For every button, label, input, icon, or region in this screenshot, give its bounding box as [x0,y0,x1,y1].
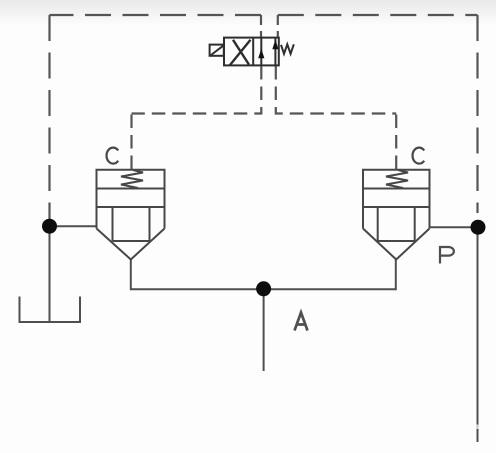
tank symbol [20,297,81,323]
arrowhead flow 1 [258,49,264,58]
node T [42,219,57,234]
solenoid valve U1 [210,38,294,66]
cartridge valve right [363,170,430,260]
X closed position [230,40,251,65]
arrowhead flow 2 [272,40,278,49]
pilot line valve to left cartridge [132,66,262,169]
wire node A down [263,289,265,371]
flow paths [261,38,275,66]
pilot stub valve top port 2 [277,15,279,38]
wire right cartridge to node P [430,226,478,228]
wire bottom rail tips to node A [131,260,396,290]
wire node T down to tank [49,226,51,322]
label C left [107,148,119,164]
spring right cartridge [386,170,408,188]
funnel left [97,229,165,260]
label A [295,313,308,331]
wire node P down [477,227,479,442]
node A [256,281,271,296]
pilot line valve to right cartridge [276,66,396,169]
pilot line top-right rail [278,15,478,213]
wire node T to left cartridge side port [50,225,97,227]
spring W [281,44,294,54]
spring left cartridge [121,170,143,188]
node P [471,220,486,235]
funnel right [363,229,430,260]
wire P line faded spot [476,425,478,430]
label P [440,247,454,264]
cartridge valve left [97,170,165,260]
pilot line top-left rail [50,15,262,219]
pilot stub valve top port 1 [260,15,262,38]
label C right [413,148,425,164]
poppet box right [378,207,415,241]
solenoid box [210,45,224,56]
poppet box left [113,207,150,241]
